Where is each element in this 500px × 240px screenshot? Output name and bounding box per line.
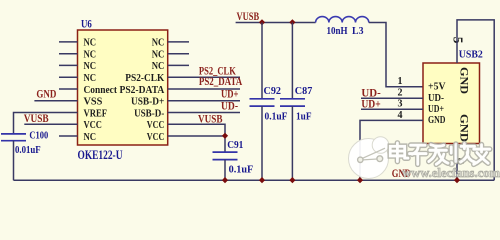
svg-text:VCC: VCC (84, 119, 102, 131)
svg-text:C100: C100 (29, 131, 48, 142)
svg-text:USB2: USB2 (459, 49, 483, 60)
svg-text:U6: U6 (81, 16, 92, 30)
svg-text:4: 4 (398, 110, 403, 121)
wire row9 to junction (168, 135, 225, 137)
svg-text:C92: C92 (264, 86, 282, 97)
svg-text:C91: C91 (227, 140, 243, 151)
svg-text:NC: NC (152, 49, 165, 61)
wire PS2_DATA (168, 88, 240, 90)
wire L3 to connector pin1 (369, 23, 423, 87)
svg-text:GND: GND (457, 114, 469, 142)
svg-text:1uF: 1uF (296, 111, 312, 122)
svg-text:PS2-DATA: PS2-DATA (120, 84, 165, 96)
svg-text:C87: C87 (295, 86, 313, 97)
connector pin names (428, 81, 446, 127)
wire UD+ (left) (168, 100, 240, 102)
wire C92 to rail (261, 106, 263, 180)
svg-text:USB-D-: USB-D- (134, 107, 164, 119)
junction rail at C92 (259, 177, 265, 183)
inductor L3 coil (316, 17, 369, 23)
ground rail (14, 179, 495, 181)
wire top rail to C92 (261, 23, 263, 99)
wire top rail to C87 (291, 23, 293, 99)
watermark CJK text 电子发烧友 (drawn strokes) (390, 143, 490, 164)
svg-text:NC: NC (84, 60, 97, 72)
U6 left pin stubs (59, 42, 78, 136)
wire pin6 to rail (456, 144, 458, 181)
svg-text:NC: NC (152, 37, 165, 49)
svg-text:VCC: VCC (147, 131, 165, 143)
connector USB2 body (423, 63, 480, 144)
svg-text:NC: NC (152, 60, 165, 72)
capacitor C92 (250, 99, 275, 106)
wire UD+ to pin3 (361, 108, 423, 110)
junction at C91 top (222, 133, 228, 139)
wire PS2_CLK (168, 76, 240, 78)
svg-text:NC: NC (84, 37, 97, 49)
watermark www.elecfans.com (402, 165, 500, 180)
svg-text:VSS: VSS (84, 96, 103, 108)
svg-text:Connect: Connect (84, 84, 118, 96)
U6 right pin stubs (NC rows) (168, 42, 189, 66)
wire C87 to rail (291, 106, 293, 180)
wire C100 to ground rail (13, 141, 15, 181)
capacitor C87 (280, 99, 305, 106)
U6 right pin names (120, 37, 165, 143)
svg-text:10nH: 10nH (327, 26, 348, 37)
svg-text:www.elecfans.com: www.elecfans.com (402, 165, 500, 180)
svg-text:VUSB: VUSB (24, 111, 49, 125)
svg-text:+5V: +5V (428, 81, 446, 93)
svg-text:UD-: UD- (221, 99, 238, 113)
wire VUSB (left) (24, 123, 77, 125)
svg-text:NC: NC (84, 72, 97, 84)
svg-text:0.1uF: 0.1uF (229, 164, 254, 175)
svg-text:L3: L3 (352, 26, 364, 37)
svg-text:0.1uF: 0.1uF (265, 111, 288, 122)
wire UD- to pin2 (361, 97, 423, 99)
capacitor C91 (213, 152, 238, 160)
junction rail at pin4 wire (357, 177, 363, 183)
junction top at C87 (289, 19, 295, 25)
svg-text:PS2-CLK: PS2-CLK (125, 72, 164, 84)
wire pin4 to ground rail (360, 120, 423, 180)
wire GND to VSS (34, 100, 77, 102)
svg-text:VCC: VCC (147, 119, 165, 131)
svg-text:5: 5 (450, 37, 465, 44)
junction rail at C91 (222, 177, 228, 183)
svg-text:1: 1 (398, 76, 403, 87)
wire VUSB right of U6 (168, 124, 225, 152)
svg-text:NC: NC (84, 131, 97, 143)
svg-text:GND: GND (428, 114, 446, 126)
svg-text:2: 2 (398, 88, 403, 99)
svg-text:0.01uF: 0.01uF (15, 145, 41, 156)
junction rail at pin6 wire (454, 177, 460, 183)
wire VREF to C100 (14, 113, 78, 134)
IC U6 body (78, 30, 168, 145)
junction top at C92 (259, 19, 265, 25)
wire VUSB top rail (236, 22, 316, 24)
svg-text:UD+: UD+ (361, 96, 380, 110)
svg-text:OKE122-U: OKE122-U (78, 147, 123, 162)
svg-text:USB-D+: USB-D+ (131, 96, 164, 108)
capacitor C100 (1, 134, 26, 141)
U6 left pin names (84, 37, 118, 143)
wire UD- (left) (168, 112, 240, 114)
svg-text:VREF: VREF (84, 107, 108, 119)
svg-text:GND: GND (457, 67, 469, 94)
svg-text:NC: NC (84, 49, 97, 61)
svg-text:VUSB: VUSB (198, 111, 223, 125)
svg-text:3: 3 (398, 99, 403, 110)
svg-text:GND: GND (36, 86, 56, 100)
wire pin5 loop to rail (457, 20, 494, 180)
watermark logo circle (349, 137, 455, 179)
junction rail at C87 (289, 177, 295, 183)
pin numbers 1-4 (398, 76, 403, 121)
svg-text:VUSB: VUSB (237, 9, 260, 23)
wire C91 to rail (224, 160, 226, 181)
